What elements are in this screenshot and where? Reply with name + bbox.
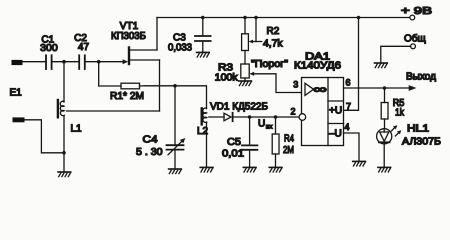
svg-text:–U: –U: [329, 129, 342, 140]
output arrow: [409, 85, 417, 91]
node junction C3 rail: [201, 16, 205, 20]
svg-text:5 . 30: 5 . 30: [136, 147, 163, 158]
ground: [169, 169, 182, 174]
wire: [63, 153, 65, 172]
resistor R5: [381, 88, 388, 129]
svg-text:АЛ307Б: АЛ307Б: [402, 136, 441, 147]
ground: [375, 63, 388, 68]
svg-text:R4: R4: [284, 134, 294, 145]
ground: [353, 161, 366, 166]
svg-text:R1* 2М: R1* 2М: [110, 91, 144, 102]
svg-text:100k: 100k: [215, 73, 239, 84]
svg-text:0,033: 0,033: [168, 42, 192, 53]
svg-text:вх: вх: [266, 124, 273, 131]
potentiometer R3: [241, 64, 302, 93]
svg-text:R2: R2: [267, 26, 280, 37]
label Uvx: [258, 118, 273, 130]
node pin2 circle: [299, 114, 306, 121]
svg-text:4,7k: 4,7k: [263, 38, 284, 49]
svg-text:3: 3: [293, 80, 298, 90]
svg-text:U: U: [258, 118, 265, 129]
wire pin 6 output: [344, 87, 410, 89]
svg-text:0,01: 0,01: [222, 149, 244, 160]
LED arrows: [391, 125, 401, 136]
capacitor C5: [242, 117, 257, 167]
svg-text:С5: С5: [227, 137, 241, 148]
node junction C5: [248, 115, 252, 119]
svg-text:VD1 КД522Б: VD1 КД522Б: [210, 101, 268, 112]
wire: [23, 61, 46, 63]
wire pin 7 to rail: [344, 18, 359, 111]
node junction C4: [173, 84, 177, 88]
svg-text:Выход: Выход: [406, 71, 436, 82]
node junction C1-C2/L1: [62, 60, 66, 64]
node junction wiper rail: [254, 16, 258, 20]
svg-text:L2: L2: [197, 126, 208, 137]
ground: [58, 172, 71, 177]
ground: [239, 81, 252, 86]
terminal Obshch: [411, 44, 416, 49]
wire L1 tap: [67, 110, 160, 112]
svg-text:HL1: HL1: [407, 123, 430, 134]
svg-text:300: 300: [40, 43, 58, 54]
svg-text:Общ: Общ: [404, 32, 426, 44]
svg-text:С4: С4: [143, 134, 158, 145]
wire: [25, 120, 65, 153]
inductor L1: [58, 62, 64, 153]
wire: [86, 61, 124, 63]
terminal +9V: [410, 15, 415, 20]
wire pin 4 to ground: [344, 133, 360, 161]
antenna terminal E1 bottom: [13, 117, 25, 122]
LED HL1: [377, 129, 392, 167]
antenna terminal E1 top: [12, 60, 23, 65]
wire R2 wiper: [249, 18, 262, 44]
ground: [243, 167, 256, 172]
ground: [269, 167, 282, 172]
capacitor C1: [46, 55, 52, 69]
node junction R4: [274, 115, 278, 119]
svg-text:6: 6: [346, 78, 351, 88]
svg-text:"Порог": "Порог": [251, 59, 288, 70]
capacitor C2: [79, 55, 85, 69]
svg-text:L1: L1: [71, 123, 83, 134]
svg-text:47: 47: [78, 42, 90, 53]
node junction R2 rail: [243, 16, 247, 20]
svg-text:∞: ∞: [313, 84, 327, 96]
wire: [53, 61, 79, 63]
resistor R4: [272, 117, 279, 167]
wire R1 right to tank: [145, 86, 207, 109]
capacitor C4 variable: [167, 86, 186, 169]
svg-text:+U: +U: [329, 106, 342, 117]
svg-text:2М: 2М: [283, 145, 294, 156]
node junction L1 bottom: [62, 151, 66, 155]
node junction pin7 rail: [357, 16, 361, 20]
svg-text:4: 4: [345, 122, 350, 132]
diode VD1: [209, 113, 299, 121]
svg-text:К140УД6: К140УД6: [294, 61, 342, 72]
svg-text:2: 2: [291, 107, 296, 117]
op-amp DA1: [302, 78, 344, 146]
node junction gate: [97, 60, 101, 64]
ground: [200, 167, 213, 172]
svg-text:+ 9В: + 9В: [401, 6, 432, 17]
inductor L2: [202, 108, 207, 167]
resistor R1: [99, 62, 145, 89]
svg-text:Е1: Е1: [10, 87, 23, 98]
ground: [378, 167, 391, 172]
capacitor C3: [195, 18, 211, 53]
wire: [381, 46, 411, 62]
node junction R5: [383, 86, 387, 90]
svg-text:КП303Б: КП303Б: [111, 31, 146, 42]
transistor VT1: [123, 18, 160, 112]
resistor R2: [242, 18, 249, 65]
ground: [197, 52, 210, 57]
svg-text:1k: 1k: [395, 107, 405, 118]
power rail +9V: [157, 17, 410, 19]
